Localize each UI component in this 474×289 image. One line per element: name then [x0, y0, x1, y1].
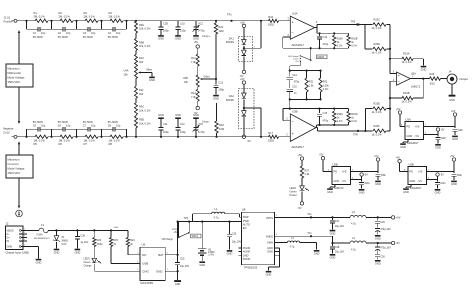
svg-text:ID: ID	[7, 239, 10, 243]
svg-text:R3: R3	[84, 11, 88, 15]
svg-text:R32: R32	[323, 80, 328, 83]
svg-text:1M, 0.1%: 1M, 0.1%	[34, 139, 46, 143]
svg-text:R10: R10	[139, 56, 144, 60]
svg-text:AGND: AGND	[243, 250, 251, 254]
svg-text:7.3k: 7.3k	[191, 60, 197, 64]
svg-text:5.0V: 5.0V	[62, 243, 67, 246]
svg-text:9-70p: 9-70p	[198, 28, 205, 32]
svg-text:GND: GND	[435, 146, 441, 150]
svg-text:J1-02: J1-02	[3, 130, 10, 134]
svg-text:Maximum: Maximum	[8, 66, 21, 70]
svg-text:U4A: U4A	[124, 69, 129, 73]
svg-text:Power: Power	[290, 193, 297, 197]
svg-text:GND: GND	[435, 191, 441, 195]
svg-text:Comp -: Comp -	[202, 120, 210, 123]
svg-text:1.3k: 1.3k	[305, 172, 311, 176]
svg-text:+VS: +VS	[415, 125, 420, 129]
svg-text:-5V: -5V	[247, 139, 251, 143]
svg-text:D-: D-	[7, 232, 10, 236]
svg-text:+5V: +5V	[450, 155, 455, 158]
svg-text:Output: Output	[459, 77, 468, 81]
svg-text:R23E: R23E	[374, 102, 381, 106]
svg-text:C5: C5	[33, 124, 37, 128]
svg-text:0.1%: 0.1%	[351, 120, 357, 123]
svg-text:1M, 0.1%: 1M, 0.1%	[59, 139, 71, 143]
svg-text:U8: U8	[242, 208, 246, 212]
svg-text:D+: D+	[7, 235, 11, 239]
svg-text:-VS: -VS	[418, 179, 423, 183]
svg-text:MAX1555: MAX1555	[140, 281, 153, 285]
svg-text:C29: C29	[380, 221, 385, 224]
svg-text:GND: GND	[449, 99, 455, 102]
svg-text:GND: GND	[375, 237, 381, 241]
svg-text:GND: GND	[156, 269, 162, 273]
svg-text:R23A: R23A	[403, 52, 410, 56]
svg-text:SW1B: SW1B	[317, 57, 324, 59]
svg-text:GND: GND	[451, 182, 457, 186]
svg-text:0.50A: 0.50A	[37, 234, 44, 237]
svg-text:1k, 0.1%: 1k, 0.1%	[372, 110, 383, 114]
svg-text:100n: 100n	[440, 183, 446, 185]
svg-text:Maximum: Maximum	[8, 157, 21, 161]
svg-text:GND: GND	[452, 137, 458, 141]
svg-text:R23B: R23B	[403, 91, 410, 95]
svg-text:GND: GND	[175, 283, 181, 286]
svg-text:BAV99: BAV99	[226, 40, 234, 44]
svg-text:R12: R12	[191, 56, 196, 60]
svg-text:GND: GND	[267, 250, 273, 254]
svg-text:0.1%: 0.1%	[323, 88, 329, 91]
svg-text:1M, 0.1%: 1M, 0.1%	[84, 139, 96, 143]
svg-text:TPS65133: TPS65133	[244, 265, 258, 269]
svg-text:U6: U6	[142, 243, 146, 247]
svg-text:R24: R24	[130, 239, 135, 242]
svg-text:2M, 0.1%: 2M, 0.1%	[34, 15, 46, 19]
svg-text:R34: R34	[268, 15, 273, 19]
svg-text:GND: GND	[407, 134, 413, 138]
svg-text:+5V: +5V	[194, 40, 199, 44]
svg-text:R9D: R9D	[139, 118, 144, 122]
svg-text:100n: 100n	[458, 130, 464, 132]
svg-text:GND: GND	[7, 244, 13, 248]
svg-text:R6: R6	[59, 142, 63, 146]
svg-text:R26: R26	[97, 239, 102, 242]
svg-text:R22: R22	[219, 25, 224, 29]
svg-text:100p: 100p	[163, 28, 169, 32]
svg-text:R25: R25	[113, 239, 118, 242]
svg-text:PWR: PWR	[243, 219, 249, 223]
svg-text:GND: GND	[330, 256, 336, 260]
svg-text:U3A: U3A	[406, 117, 411, 121]
svg-text:PD: PD	[410, 170, 414, 174]
svg-text:0.1%: 0.1%	[337, 120, 343, 123]
svg-text:100p: 100p	[163, 130, 169, 134]
svg-text:+5V: +5V	[451, 110, 456, 113]
svg-text:CHG: CHG	[142, 269, 149, 273]
svg-text:1k, 0.1%: 1k, 0.1%	[372, 26, 383, 30]
svg-text:1M, 0.1%: 1M, 0.1%	[109, 139, 121, 143]
svg-text:Charge Input (USB): Charge Input (USB)	[6, 251, 30, 255]
svg-text:Li-Ion: Li-Ion	[293, 58, 299, 60]
svg-text:PD: PD	[334, 170, 338, 174]
svg-text:U3B: U3B	[409, 162, 414, 166]
svg-text:-5V: -5V	[441, 129, 445, 132]
svg-text:1k, 0.1%: 1k, 0.1%	[372, 50, 383, 54]
svg-text:GND: GND	[403, 190, 409, 194]
svg-text:U5B: U5B	[333, 162, 338, 166]
svg-text:C1A: C1A	[292, 74, 297, 77]
svg-text:GND: GND	[400, 145, 406, 149]
svg-text:4.7µ: 4.7µ	[351, 248, 357, 252]
svg-text:R23F: R23F	[374, 124, 381, 128]
svg-text:10p: 10p	[41, 31, 46, 35]
svg-text:GND: GND	[243, 253, 249, 257]
svg-text:GND: GND	[334, 179, 340, 183]
svg-text:GND: GND	[359, 191, 365, 195]
svg-text:0.1%: 0.1%	[337, 44, 343, 47]
svg-text:GND: GND	[375, 262, 381, 266]
svg-text:GND: GND	[36, 260, 42, 264]
svg-text:GND: GND	[158, 113, 164, 117]
svg-text:C26: C26	[232, 233, 237, 236]
svg-text:Comp +: Comp +	[202, 35, 211, 38]
svg-text:7.3k: 7.3k	[191, 95, 197, 99]
svg-text:VPOS: VPOS	[266, 216, 273, 220]
svg-text:C4: C4	[108, 31, 112, 35]
svg-text:R27: R27	[305, 168, 310, 172]
svg-text:VC1: VC1	[198, 21, 204, 25]
svg-text:9-70p: 9-70p	[198, 130, 205, 134]
svg-text:BAT: BAT	[158, 253, 164, 257]
svg-text:+VS: +VS	[418, 170, 423, 174]
svg-text:GND: GND	[193, 113, 199, 117]
svg-text:2M, 0.1%: 2M, 0.1%	[109, 15, 121, 19]
svg-text:5% 500V: 5% 500V	[58, 120, 69, 124]
svg-text:R11: R11	[139, 88, 144, 92]
svg-text:10p: 10p	[41, 124, 46, 128]
svg-text:R14: R14	[191, 91, 196, 95]
svg-text:100Ω: 100Ω	[268, 23, 274, 27]
svg-text:Differential: Differential	[8, 71, 22, 75]
svg-text:R26: R26	[430, 72, 435, 76]
svg-text:100n: 100n	[441, 138, 447, 140]
svg-text:ADA4817: ADA4817	[407, 141, 419, 145]
svg-text:Off-Charge: Off-Charge	[288, 55, 299, 58]
svg-text:2M, 0.1%: 2M, 0.1%	[84, 15, 96, 19]
svg-text:10p: 10p	[91, 31, 96, 35]
svg-text:C16: C16	[292, 85, 297, 88]
svg-text:BAV99: BAV99	[226, 98, 234, 102]
svg-text:130p: 130p	[180, 28, 186, 32]
svg-text:DC: DC	[142, 253, 146, 257]
svg-text:GND: GND	[213, 96, 219, 100]
svg-text:10k, 0.1%: 10k, 0.1%	[139, 108, 151, 112]
svg-text:GND: GND	[327, 190, 333, 194]
svg-text:2M, 0.1%: 2M, 0.1%	[59, 15, 71, 19]
svg-text:Li-Ion: Li-Ion	[172, 229, 178, 231]
svg-text:TP4: TP4	[184, 217, 189, 220]
svg-text:VNEG: VNEG	[266, 234, 273, 238]
svg-text:R5: R5	[34, 142, 38, 146]
svg-text:Mode Voltage: Mode Voltage	[8, 76, 25, 80]
svg-text:470p: 470p	[323, 118, 329, 122]
svg-text:10µ,10V: 10µ,10V	[180, 265, 190, 268]
svg-text:C10: C10	[180, 21, 185, 25]
svg-text:C30: C30	[380, 255, 385, 258]
svg-text:5% 500V: 5% 500V	[58, 35, 69, 39]
svg-text:Mode Voltage: Mode Voltage	[8, 167, 25, 171]
svg-text:C3: C3	[83, 31, 87, 35]
svg-text:R8: R8	[109, 142, 113, 146]
svg-text:5% 500V: 5% 500V	[83, 120, 94, 124]
svg-text:C6: C6	[58, 124, 62, 128]
svg-text:1µ,10V: 1µ,10V	[80, 241, 88, 244]
svg-text:U4B: U4B	[183, 76, 188, 80]
svg-text:1.05k: 1.05k	[323, 84, 330, 87]
svg-text:-5V: -5V	[364, 174, 368, 177]
svg-text:VBUS: VBUS	[7, 228, 14, 232]
svg-text:R9A: R9A	[139, 23, 144, 27]
svg-text:4.7µ: 4.7µ	[351, 222, 357, 226]
svg-text:R33: R33	[219, 123, 224, 127]
svg-text:10k, 0.1%: 10k, 0.1%	[139, 27, 151, 31]
svg-text:GND: GND	[158, 37, 164, 41]
svg-text:TP5: TP5	[351, 20, 356, 24]
svg-text:5% 500V: 5% 500V	[108, 120, 119, 124]
svg-text:10p: 10p	[91, 124, 96, 128]
svg-text:-5V: -5V	[298, 206, 302, 210]
svg-text:LM6172: LM6172	[411, 85, 421, 89]
svg-text:R1: R1	[34, 11, 38, 15]
svg-text:EN: EN	[243, 226, 247, 230]
svg-text:C15: C15	[323, 111, 328, 115]
svg-text:+5V: +5V	[298, 153, 303, 157]
svg-text:U3B: U3B	[292, 109, 298, 113]
svg-text:C27: C27	[335, 220, 340, 223]
svg-text:GND: GND	[75, 250, 81, 254]
svg-text:-5V: -5V	[440, 174, 444, 177]
svg-text:SW1A: SW1A	[192, 235, 199, 238]
svg-text:402: 402	[139, 60, 144, 64]
svg-text:GND: GND	[227, 252, 233, 256]
svg-text:5% 500V: 5% 500V	[33, 120, 44, 124]
svg-text:Negative: Negative	[3, 127, 14, 131]
svg-text:ADA4817: ADA4817	[292, 43, 305, 47]
svg-text:10k, 0.1%: 10k, 0.1%	[139, 122, 151, 126]
svg-text:GND: GND	[175, 37, 181, 41]
svg-text:LM6172: LM6172	[334, 186, 344, 190]
svg-text:SWN: SWN	[267, 241, 273, 245]
svg-text:1.5k: 1.5k	[309, 84, 314, 87]
svg-text:GND: GND	[149, 78, 155, 82]
svg-text:C7: C7	[83, 124, 87, 128]
svg-text:10M: 10M	[219, 127, 224, 131]
svg-text:453Ω: 453Ω	[97, 243, 103, 246]
svg-text:+5V: +5V	[173, 232, 178, 234]
svg-text:U3A: U3A	[292, 12, 298, 16]
svg-text:Positive: Positive	[4, 20, 14, 24]
svg-text:Off-Charge: Off-Charge	[162, 238, 174, 241]
svg-text:Offset: Offset	[204, 75, 210, 78]
svg-text:MF-MSMF050-2: MF-MSMF050-2	[34, 238, 50, 240]
svg-text:ADA4817: ADA4817	[410, 186, 422, 190]
svg-text:Green: Green	[290, 190, 298, 194]
svg-text:10k: 10k	[184, 80, 189, 84]
svg-text:GND: GND	[175, 113, 181, 117]
svg-text:+5V: +5V	[319, 154, 324, 157]
svg-text:AUTO: AUTO	[243, 223, 250, 227]
svg-text:PD: PD	[407, 125, 411, 129]
svg-text:10k: 10k	[124, 72, 129, 76]
svg-text:C25: C25	[180, 257, 185, 260]
svg-text:PGND: PGND	[243, 246, 251, 250]
svg-text:PGND: PGND	[243, 257, 251, 261]
svg-text:10p: 10p	[116, 31, 121, 35]
svg-text:100n: 100n	[364, 183, 370, 185]
svg-text:470p: 470p	[323, 42, 329, 46]
svg-text:C12: C12	[180, 122, 185, 126]
svg-text:C1B: C1B	[163, 21, 168, 25]
svg-text:R23C: R23C	[374, 17, 381, 21]
svg-text:Charge: Charge	[84, 265, 93, 268]
svg-text:+VS: +VS	[342, 170, 347, 174]
svg-text:100p: 100p	[218, 88, 224, 92]
svg-text:+5V: +5V	[396, 108, 401, 111]
svg-text:GND: GND	[54, 250, 60, 254]
svg-text:R9C: R9C	[139, 105, 144, 109]
svg-text:GND: GND	[193, 37, 199, 41]
svg-text:GND: GND	[199, 263, 205, 267]
svg-text:1k, 0.1%: 1k, 0.1%	[402, 60, 413, 64]
svg-text:4.7µ: 4.7µ	[290, 245, 295, 248]
svg-text:402: 402	[139, 92, 144, 96]
svg-text:Offset: Offset	[146, 68, 152, 71]
svg-text:USB: USB	[142, 262, 148, 266]
svg-text:C14: C14	[323, 35, 328, 39]
svg-text:C11: C11	[163, 122, 168, 126]
svg-text:±500 VDC: ±500 VDC	[8, 171, 21, 175]
svg-text:Li-Po: Li-Po	[209, 255, 215, 257]
svg-text:R2: R2	[59, 11, 63, 15]
svg-text:130p: 130p	[180, 130, 186, 134]
svg-text:GND: GND	[421, 67, 427, 71]
svg-text:+5V: +5V	[396, 157, 401, 160]
svg-text:C38: C38	[80, 235, 85, 238]
svg-text:SWP: SWP	[243, 215, 249, 219]
svg-text:GND: GND	[314, 252, 320, 256]
svg-text:GND: GND	[267, 246, 273, 250]
svg-text:J2: J2	[6, 222, 9, 226]
svg-text:1k, 0.1%: 1k, 0.1%	[372, 132, 383, 136]
svg-text:+5V: +5V	[374, 155, 379, 158]
svg-text:C2: C2	[58, 31, 62, 35]
svg-text:4.7µ: 4.7µ	[214, 215, 220, 219]
svg-text:5% 500V: 5% 500V	[33, 35, 44, 39]
svg-text:C8: C8	[108, 124, 112, 128]
svg-text:470µ,10V: 470µ,10V	[380, 228, 391, 231]
svg-text:Common: Common	[8, 162, 20, 166]
svg-text:10p: 10p	[116, 124, 121, 128]
svg-text:CHG: CHG	[114, 227, 119, 229]
svg-text:5% 500V: 5% 500V	[83, 35, 94, 39]
svg-text:100n: 100n	[457, 175, 463, 177]
svg-text:C28: C28	[335, 246, 340, 249]
svg-text:10M: 10M	[219, 29, 224, 33]
svg-text:10k, 0.1%: 10k, 0.1%	[139, 44, 151, 48]
svg-text:10µ,10V: 10µ,10V	[335, 225, 345, 228]
svg-text:TP6: TP6	[353, 132, 358, 136]
svg-text:470p: 470p	[294, 81, 300, 84]
svg-text:10p: 10p	[66, 31, 71, 35]
svg-text:10µ,10V: 10µ,10V	[232, 241, 242, 244]
svg-text:R7: R7	[84, 142, 88, 146]
svg-text:ADA4817: ADA4817	[292, 145, 305, 149]
svg-text:-VS: -VS	[342, 179, 347, 183]
svg-text:+5V: +5V	[240, 20, 245, 24]
svg-text:R9B: R9B	[139, 40, 144, 44]
svg-text:J1-01: J1-01	[4, 16, 11, 20]
svg-text:+5V: +5V	[396, 216, 401, 220]
svg-text:100Ω: 100Ω	[268, 139, 274, 143]
svg-text:10p: 10p	[66, 124, 71, 128]
svg-text:5% 500V: 5% 500V	[108, 35, 119, 39]
svg-text:TP1: TP1	[227, 12, 232, 16]
svg-text:14500: 14500	[208, 252, 215, 254]
svg-text:GND: GND	[375, 182, 381, 186]
svg-text:DA2: DA2	[229, 94, 235, 98]
svg-text:R23D: R23D	[374, 42, 381, 46]
svg-text:R17: R17	[268, 131, 273, 135]
svg-text:-VS: -VS	[415, 134, 420, 138]
svg-text:GND: GND	[410, 179, 416, 183]
svg-text:R4: R4	[109, 11, 113, 15]
svg-text:0.1%: 0.1%	[351, 44, 357, 47]
svg-text:C13: C13	[218, 81, 223, 85]
svg-text:R31: R31	[309, 80, 314, 83]
svg-text:+5V: +5V	[240, 77, 245, 81]
svg-text:DA1: DA1	[229, 36, 235, 40]
svg-text:GND: GND	[266, 273, 272, 277]
svg-text:-5V: -5V	[396, 241, 400, 245]
svg-text:10µ,10V: 10µ,10V	[335, 250, 345, 253]
svg-text:50Ω: 50Ω	[430, 81, 435, 85]
svg-text:±500 VDC: ±500 VDC	[8, 80, 21, 84]
svg-text:LED2: LED2	[290, 186, 297, 190]
svg-text:GND: GND	[330, 231, 336, 235]
svg-text:C1: C1	[33, 31, 37, 35]
svg-text:1k, 0.1%: 1k, 0.1%	[402, 100, 413, 104]
svg-text:100n: 100n	[381, 175, 387, 177]
svg-text:470µ,10V: 470µ,10V	[380, 247, 391, 250]
